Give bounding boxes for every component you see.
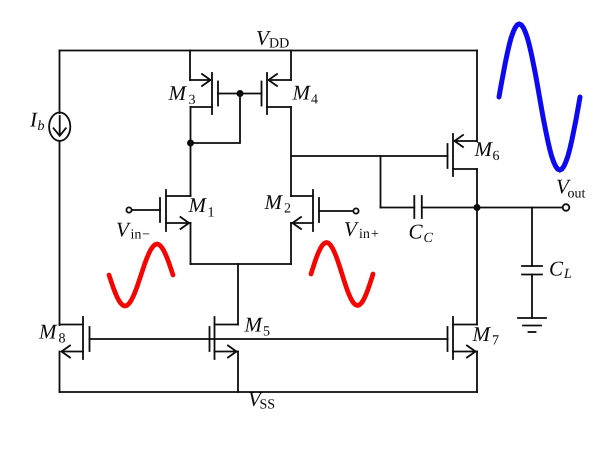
- node dot gate tie: [237, 90, 244, 97]
- wire VSS rail: [60, 391, 478, 393]
- wire second stage gate: [291, 155, 448, 157]
- red input sine right: [311, 243, 373, 306]
- label VDD: [257, 31, 289, 47]
- wire M6 drain down to output: [476, 169, 478, 208]
- capacitor CL: [522, 208, 542, 319]
- wire tail junction: [191, 263, 292, 265]
- blue output sine: [499, 24, 580, 170]
- label CC: [410, 225, 433, 243]
- wire left rail top: [59, 51, 61, 114]
- red input sine left: [109, 244, 173, 306]
- label M4: [292, 86, 318, 104]
- label Vin+: [345, 222, 378, 238]
- transistor M7: [448, 317, 478, 359]
- terminal Vout circle: [563, 204, 570, 211]
- wire M2 source down: [290, 223, 292, 264]
- current source Ib: [49, 113, 70, 141]
- label M6: [474, 142, 499, 160]
- wire M3 drain down to M1: [190, 107, 192, 196]
- wire VDD rail: [60, 50, 478, 52]
- label M2: [264, 195, 290, 212]
- wire M5 source down: [237, 352, 239, 393]
- wire Cc branch vertical: [380, 156, 382, 208]
- capacitor CC: [381, 196, 478, 218]
- label Ib: [30, 113, 44, 130]
- wire left rail bottom: [59, 352, 61, 393]
- transistor M5: [210, 317, 239, 359]
- label M3: [168, 86, 195, 104]
- transistor M1: [132, 190, 191, 231]
- label M7: [472, 327, 498, 344]
- label M1: [188, 198, 213, 216]
- transistor M6: [448, 134, 478, 176]
- transistor M2: [291, 190, 353, 231]
- wire M6 source up to VDD: [476, 51, 478, 142]
- wire M4 drain down to M2: [290, 107, 292, 196]
- wire M1 source down: [190, 223, 192, 264]
- wire gate-to-drain diode connection: [191, 94, 241, 144]
- node dot M3 drain: [187, 140, 194, 147]
- terminal Vin- circle: [126, 207, 131, 212]
- node output dot: [474, 204, 481, 211]
- transistor M3: [190, 51, 218, 115]
- transistor M8: [60, 317, 90, 359]
- label CL: [550, 262, 571, 278]
- label M8: [39, 325, 65, 343]
- transistor M4: [262, 51, 292, 115]
- wire M7 source down: [476, 352, 478, 393]
- label VSS: [249, 392, 274, 408]
- wire output to terminal: [477, 207, 563, 209]
- terminal Vin+ circle: [353, 208, 358, 213]
- wire gate tie M3-M4: [218, 93, 262, 95]
- wire bias gate line M8-M5-M7: [90, 338, 448, 340]
- wire left rail middle: [59, 141, 61, 325]
- wire M7 drain up to output: [476, 208, 478, 325]
- label Vin-: [117, 223, 149, 239]
- ground: [518, 318, 546, 332]
- label Vout: [557, 180, 585, 198]
- label M5: [244, 318, 269, 336]
- wire tail to M5: [237, 264, 239, 325]
